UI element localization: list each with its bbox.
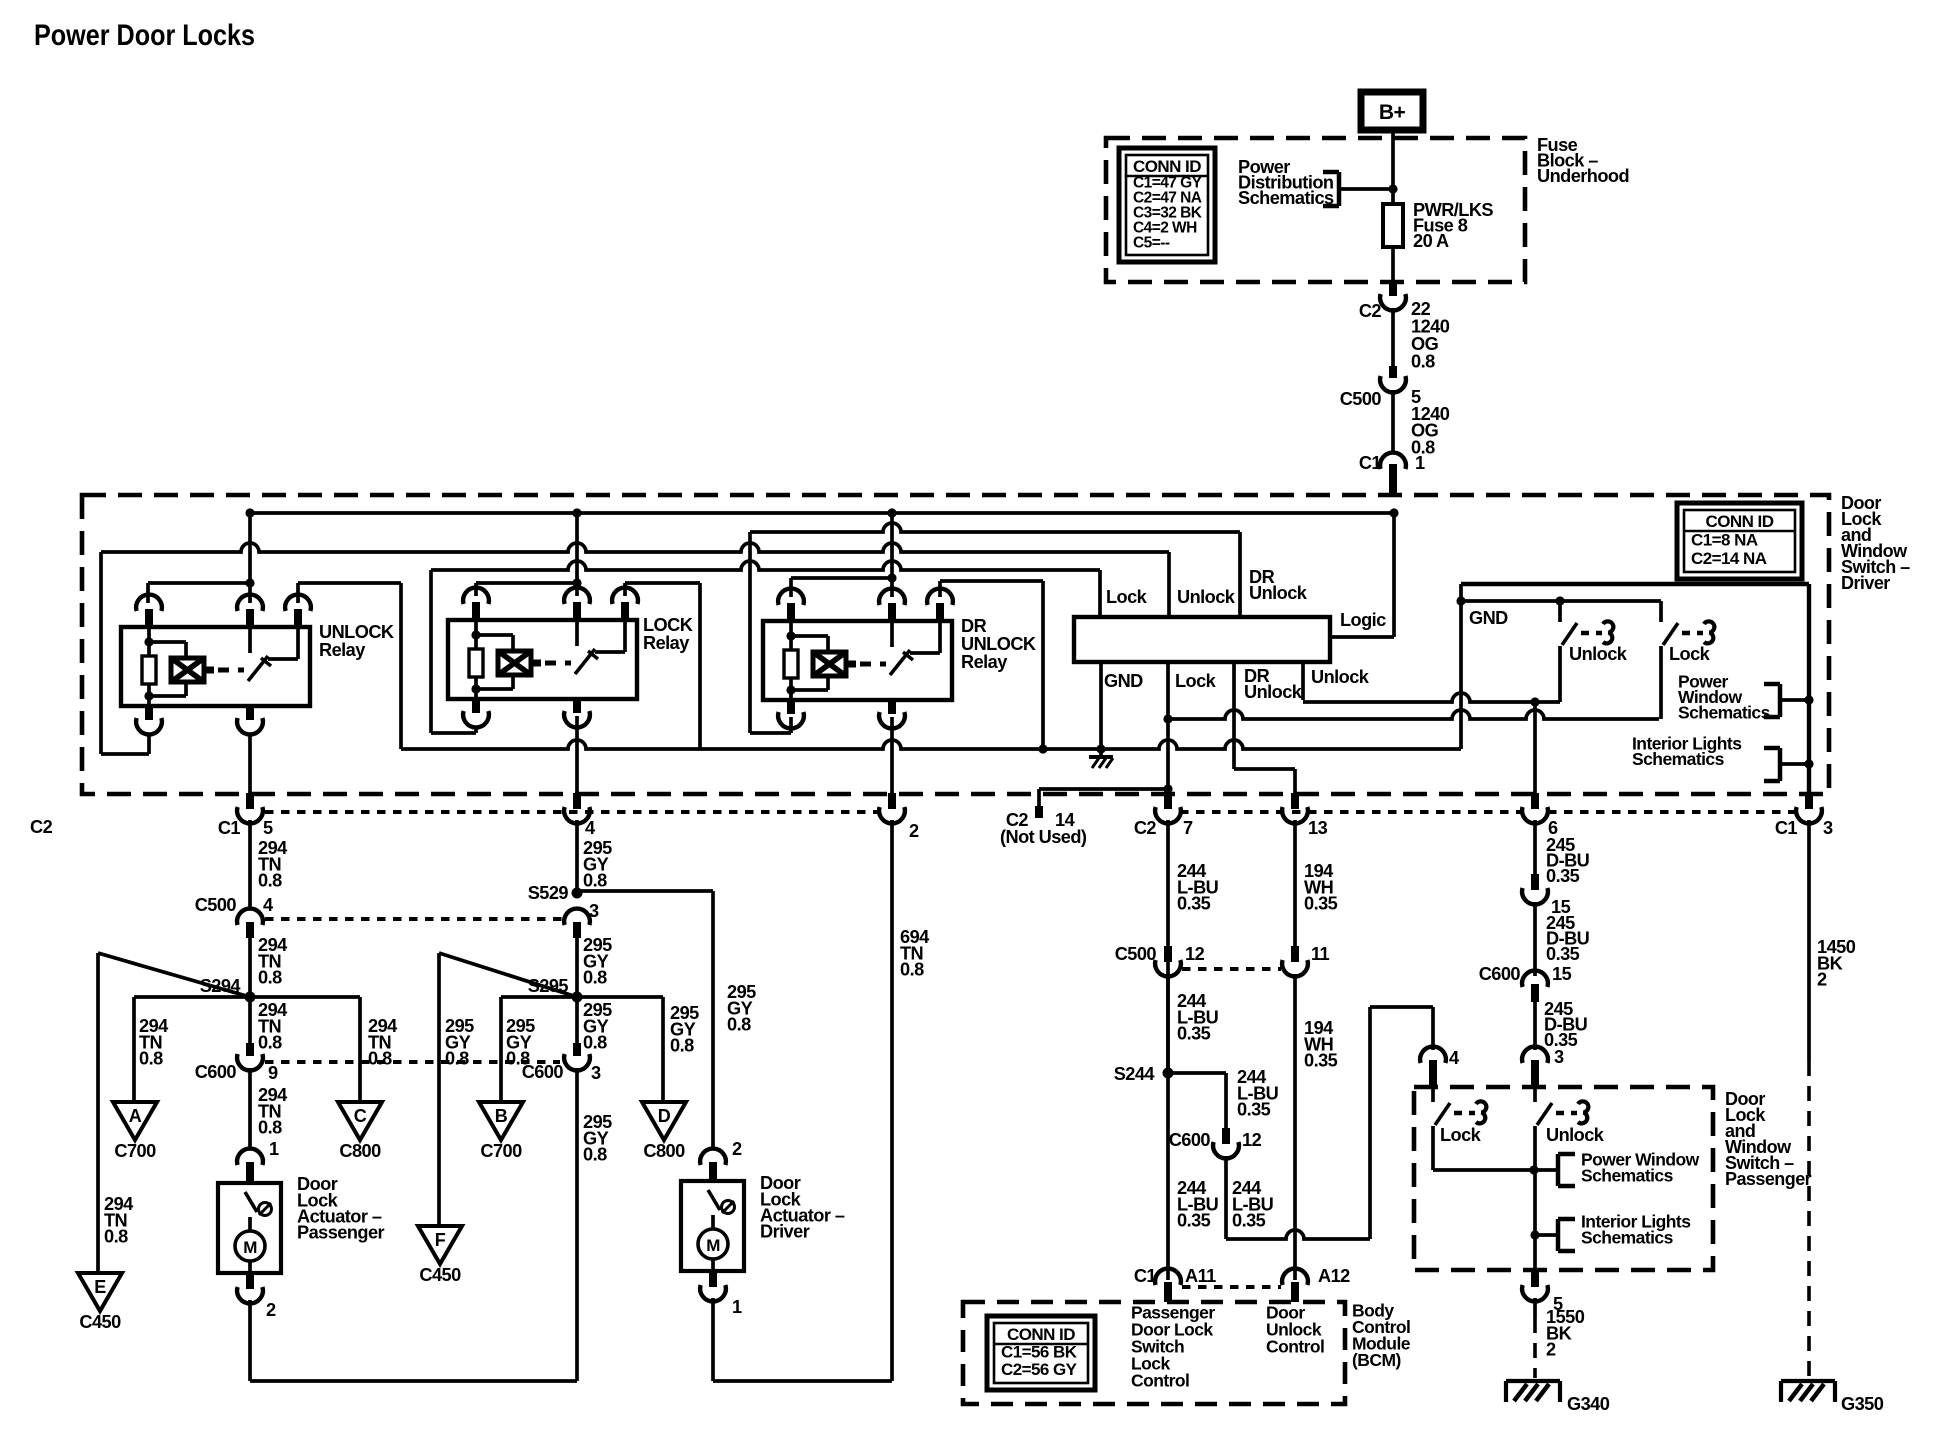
svg-text:0.8: 0.8: [258, 1118, 282, 1138]
svg-text:0.8: 0.8: [445, 1049, 469, 1069]
svg-text:C1: C1: [1775, 818, 1798, 838]
svg-text:G340: G340: [1567, 1394, 1610, 1414]
svg-text:Schematics: Schematics: [1238, 188, 1334, 208]
svg-text:C700: C700: [114, 1141, 156, 1161]
svg-text:Unlock: Unlock: [1546, 1125, 1605, 1145]
svg-text:Passenger: Passenger: [1725, 1169, 1812, 1189]
svg-text:11: 11: [1311, 944, 1330, 964]
svg-text:C600: C600: [1169, 1130, 1211, 1150]
svg-text:Relay: Relay: [319, 640, 366, 660]
svg-text:3: 3: [591, 1063, 601, 1083]
svg-text:Driver: Driver: [760, 1222, 810, 1242]
svg-text:Unlock: Unlock: [1311, 667, 1370, 687]
svg-text:Schematics: Schematics: [1678, 703, 1771, 723]
svg-text:Unlock: Unlock: [1244, 682, 1303, 702]
svg-text:C1=8 NA: C1=8 NA: [1691, 530, 1758, 549]
svg-text:C500: C500: [195, 895, 237, 915]
svg-text:2: 2: [909, 821, 919, 841]
svg-text:13: 13: [1308, 818, 1328, 838]
svg-text:Relay: Relay: [961, 652, 1008, 672]
svg-text:CONN ID: CONN ID: [1007, 1325, 1075, 1344]
svg-text:A12: A12: [1318, 1266, 1350, 1286]
svg-text:0.8: 0.8: [583, 1033, 607, 1053]
svg-text:Lock: Lock: [1106, 587, 1148, 607]
svg-text:Schematics: Schematics: [1581, 1228, 1674, 1248]
svg-text:Control: Control: [1266, 1337, 1324, 1357]
svg-text:2: 2: [732, 1139, 742, 1159]
svg-text:0.8: 0.8: [139, 1049, 163, 1069]
svg-text:0.8: 0.8: [583, 968, 607, 988]
svg-text:0.35: 0.35: [1546, 944, 1580, 964]
svg-text:C800: C800: [339, 1141, 381, 1161]
svg-text:3: 3: [1554, 1047, 1564, 1067]
svg-text:A: A: [129, 1106, 142, 1126]
svg-text:0.8: 0.8: [258, 1033, 282, 1053]
svg-text:0.35: 0.35: [1177, 1024, 1211, 1044]
svg-text:0.35: 0.35: [1177, 894, 1211, 914]
svg-text:Driver: Driver: [1841, 573, 1890, 593]
svg-text:0.8: 0.8: [368, 1049, 392, 1069]
svg-text:2: 2: [1817, 970, 1827, 990]
svg-text:5: 5: [263, 818, 273, 838]
svg-text:Unlock: Unlock: [1249, 583, 1308, 603]
svg-text:(BCM): (BCM): [1352, 1350, 1401, 1370]
svg-text:DR: DR: [961, 616, 987, 636]
svg-text:Lock: Lock: [1440, 1125, 1482, 1145]
svg-text:C: C: [354, 1106, 367, 1126]
svg-text:C2: C2: [30, 817, 53, 837]
svg-text:12: 12: [1242, 1130, 1262, 1150]
svg-text:0.8: 0.8: [670, 1036, 694, 1056]
svg-text:1: 1: [1415, 453, 1425, 473]
svg-text:Schematics: Schematics: [1632, 749, 1725, 769]
svg-text:B: B: [495, 1106, 508, 1126]
svg-text:Lock: Lock: [1669, 644, 1711, 664]
svg-text:Control: Control: [1131, 1371, 1189, 1391]
svg-text:Schematics: Schematics: [1581, 1166, 1674, 1186]
svg-text:C600: C600: [522, 1062, 564, 1082]
svg-text:C450: C450: [79, 1312, 121, 1332]
svg-text:Lock: Lock: [1175, 671, 1217, 691]
svg-text:C500: C500: [1115, 944, 1157, 964]
svg-text:4: 4: [263, 895, 274, 915]
svg-text:M: M: [243, 1238, 257, 1257]
svg-text:Passenger: Passenger: [297, 1223, 385, 1243]
svg-text:0.8: 0.8: [258, 871, 282, 891]
svg-text:2: 2: [1546, 1340, 1556, 1360]
svg-text:4: 4: [585, 818, 596, 838]
svg-text:20 A: 20 A: [1413, 231, 1449, 251]
svg-text:C450: C450: [419, 1265, 461, 1285]
svg-text:0.8: 0.8: [900, 960, 924, 980]
svg-text:C2=56 GY: C2=56 GY: [1001, 1360, 1078, 1379]
svg-text:C800: C800: [643, 1141, 685, 1161]
svg-text:Power Door Locks: Power Door Locks: [34, 19, 255, 52]
svg-text:Relay: Relay: [643, 633, 690, 653]
svg-text:(Not Used): (Not Used): [1000, 827, 1087, 847]
svg-text:3: 3: [1823, 818, 1833, 838]
svg-text:0.35: 0.35: [1304, 894, 1338, 914]
svg-text:1: 1: [732, 1297, 742, 1317]
svg-text:4: 4: [1449, 1048, 1460, 1068]
svg-text:A11: A11: [1185, 1266, 1216, 1286]
svg-text:F: F: [435, 1230, 446, 1250]
svg-text:C1: C1: [218, 818, 241, 838]
svg-text:12: 12: [1185, 944, 1205, 964]
svg-text:C600: C600: [195, 1062, 237, 1082]
svg-text:0.8: 0.8: [727, 1015, 751, 1035]
svg-text:S244: S244: [1114, 1064, 1156, 1084]
svg-text:0.8: 0.8: [258, 968, 282, 988]
svg-text:Unlock: Unlock: [1569, 644, 1628, 664]
svg-text:0.8: 0.8: [104, 1227, 128, 1247]
svg-text:D: D: [658, 1106, 671, 1126]
svg-text:0.35: 0.35: [1546, 866, 1580, 886]
svg-text:0.35: 0.35: [1304, 1051, 1338, 1071]
svg-text:0.8: 0.8: [1411, 352, 1435, 372]
svg-text:Unlock: Unlock: [1177, 587, 1236, 607]
svg-text:LOCK: LOCK: [643, 615, 693, 635]
svg-text:15: 15: [1552, 964, 1572, 984]
svg-text:B+: B+: [1379, 101, 1406, 124]
svg-text:7: 7: [1183, 818, 1193, 838]
svg-text:1: 1: [269, 1139, 279, 1159]
svg-text:C500: C500: [1340, 389, 1382, 409]
svg-text:S529: S529: [528, 883, 569, 903]
svg-text:GND: GND: [1104, 671, 1143, 691]
svg-text:E: E: [94, 1277, 106, 1297]
svg-text:CONN ID: CONN ID: [1706, 512, 1774, 531]
svg-text:C2: C2: [1134, 818, 1157, 838]
svg-text:C600: C600: [1479, 964, 1521, 984]
svg-text:Logic: Logic: [1340, 610, 1386, 630]
svg-text:0.8: 0.8: [583, 871, 607, 891]
svg-text:UNLOCK: UNLOCK: [961, 634, 1036, 654]
svg-text:0.35: 0.35: [1237, 1100, 1271, 1120]
svg-text:0.35: 0.35: [1232, 1211, 1266, 1231]
svg-text:0.35: 0.35: [1177, 1211, 1211, 1231]
svg-text:C700: C700: [480, 1141, 522, 1161]
svg-text:0.8: 0.8: [583, 1145, 607, 1165]
svg-text:GND: GND: [1469, 608, 1508, 628]
svg-text:C2: C2: [1359, 301, 1382, 321]
svg-text:Underhood: Underhood: [1537, 166, 1629, 186]
svg-text:C5=--: C5=--: [1133, 235, 1170, 252]
svg-text:G350: G350: [1841, 1394, 1884, 1414]
svg-text:C1=56 BK: C1=56 BK: [1001, 1343, 1078, 1362]
svg-text:C2=14 NA: C2=14 NA: [1691, 549, 1767, 568]
svg-text:M: M: [706, 1236, 720, 1255]
svg-text:CONN ID: CONN ID: [1133, 157, 1201, 176]
svg-text:9: 9: [268, 1063, 278, 1083]
svg-text:UNLOCK: UNLOCK: [319, 622, 394, 642]
svg-text:2: 2: [266, 1300, 276, 1320]
